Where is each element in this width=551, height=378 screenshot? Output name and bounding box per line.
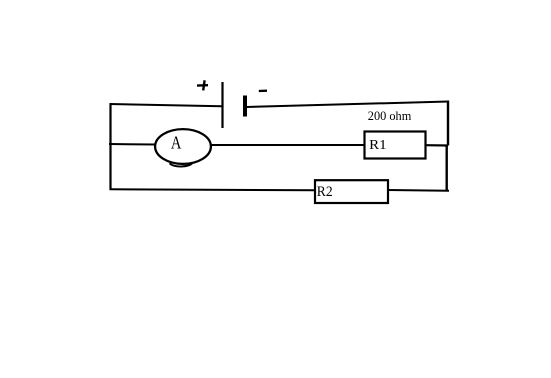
svg-text:R2: R2 <box>317 184 333 200</box>
svg-text:200 ohm: 200 ohm <box>368 108 412 123</box>
svg-text:R1: R1 <box>369 138 387 153</box>
svg-text:A: A <box>171 133 182 153</box>
